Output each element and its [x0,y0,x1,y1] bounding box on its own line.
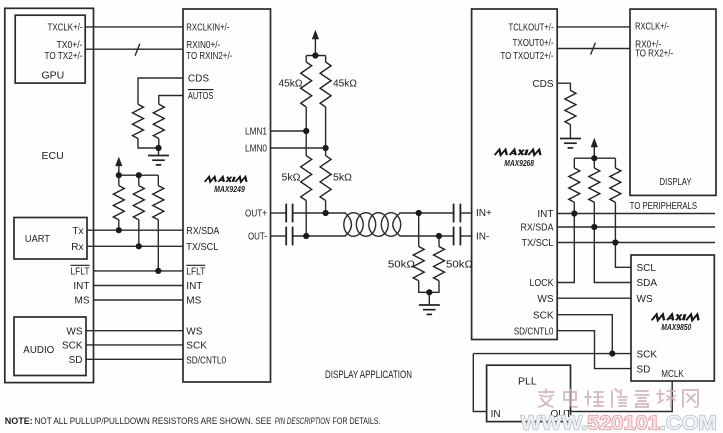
wire C3 to IN+ pin [461,212,472,214]
svg-text:INT: INT [186,281,202,292]
DISPLAY box [630,9,716,195]
ECU box [5,8,94,382]
wire OUT+ to cap C1 [271,212,287,214]
ground G2 [560,139,581,148]
resistor 5k right [320,156,331,201]
svg-text:RXIN0+/-: RXIN0+/- [186,40,220,51]
svg-text:OUT-: OUT- [248,232,267,243]
wire LMN0 [271,147,326,149]
wire pullup R4 leads [138,175,140,185]
wire SD link [557,331,631,369]
capacitor C3 [454,204,461,223]
wire LMN1 [271,130,307,132]
resistor pullup R15 [610,168,621,202]
capacitor C4 [454,227,461,246]
wire supply stub mid [314,48,316,56]
svg-text:PLL: PLL [518,376,537,388]
svg-text:SD: SD [69,355,83,366]
wire SDA link [594,227,631,283]
svg-text:WS: WS [66,326,82,337]
svg-text:TCLKOUT+/-: TCLKOUT+/- [509,23,554,34]
junction dot CDS/AUTOS ground [155,145,161,151]
wire CDS U2 [557,83,570,90]
svg-text:TO PERIPHERALS: TO PERIPHERALS [630,201,698,212]
svg-text:PIN DESCRIPTION: PIN DESCRIPTION [275,416,330,426]
wire C2 to twisted pair [293,235,346,237]
audio DAC U3 MAX9850 box [631,255,714,381]
svg-text:GPU: GPU [42,69,65,81]
resistor 45k right [320,62,331,107]
svg-text:5kΩ: 5kΩ [282,173,302,184]
UART box [14,218,87,260]
svg-text:MAX9249: MAX9249 [214,185,245,194]
resistor pullup R13 [569,168,580,202]
junction dot LMN0 [323,145,329,151]
wire SCL link [615,243,631,268]
svg-text:RX/SDA: RX/SDA [186,226,219,237]
svg-text:SCK: SCK [637,349,658,360]
resistor 50k right [434,247,445,281]
wire ground stub mid [428,292,430,305]
wire 45k left leads [305,56,307,63]
svg-text:TO TXOUT2+/-: TO TXOUT2+/- [501,51,554,62]
wire pullup R13 leads [573,158,575,168]
svg-text:5kΩ: 5kΩ [333,173,353,184]
wire SD left [86,358,183,360]
resistor pullup R14 [589,168,600,202]
svg-text:SD/CNTL0: SD/CNTL0 [186,356,226,367]
svg-text:45kΩ: 45kΩ [333,78,358,89]
svg-text:INT: INT [537,209,553,220]
wire LFLT [94,270,184,272]
junction dot 45k top [312,52,318,58]
junction dot LFLT [155,268,161,274]
U2 MAXIM logo [495,150,543,156]
svg-text:NOTE:: NOTE: [5,416,33,426]
wire supply rail right [574,157,615,159]
junction dot Rx [136,243,142,249]
resistor CDS pulldown left [133,104,144,138]
pin label U1 AUTOS overline [188,89,214,91]
wire CDS U2 resistor bottom to ground [569,125,571,139]
svg-text:LMN1: LMN1 [245,127,267,138]
svg-text:SCK: SCK [62,341,83,352]
junction dot TX/SCL [612,239,618,245]
wire CDS resistor bottom to ground node [138,139,159,149]
wire C1 to twisted pair [293,212,346,214]
junction dot OUT+ 5k [323,210,329,216]
wire WS link [557,297,631,299]
wire SCK U2 down [557,315,612,354]
svg-text:IN: IN [491,409,501,420]
svg-text:DISPLAY APPLICATION: DISPLAY APPLICATION [325,369,412,381]
wire Tx to RX/SDA [87,229,183,231]
resistor 5k left [301,156,312,201]
svg-text:Rx: Rx [71,242,83,253]
junction dot INT [571,210,577,216]
svg-text:SCL: SCL [637,263,657,274]
AUDIO box [14,317,86,376]
supply arrow left [115,157,122,176]
svg-text:AUDIO: AUDIO [23,344,54,356]
svg-text:IN-: IN- [476,232,489,243]
svg-text:NOT ALL PULLUP/PULLDOWN RESIST: NOT ALL PULLUP/PULLDOWN RESISTORS ARE SH… [35,416,272,426]
svg-text:CDS: CDS [188,74,209,85]
U3 MAXIM logo [652,314,701,320]
op U1 MAXIM logo [205,177,248,182]
wire AUTOS U1 [159,96,183,105]
junction dot 50k ground [426,289,432,295]
svg-text:SD: SD [637,364,651,375]
wire 5k left leads [305,131,307,156]
supply arrow right [591,138,598,157]
wire WS left [86,330,183,332]
wire 50k left leads [418,213,420,247]
wire Rx to TX/SCL [87,245,183,247]
wire twisted pair to cap C3 IN+ [400,212,454,214]
resistor 50k left [413,247,424,281]
svg-text:SDA: SDA [637,278,658,289]
PLL box [487,365,571,421]
wire twisted pair to cap C4 IN- [400,235,454,237]
resistor AUTOS pulldown [153,104,164,138]
wire pullup R15 leads [614,158,616,168]
svg-text:FOR DETAILS.: FOR DETAILS. [333,416,381,426]
svg-text:LMN0: LMN0 [245,144,267,155]
junction dot IN+ 50k [416,210,422,216]
svg-text:RXCLK+/-: RXCLK+/- [635,22,669,33]
svg-text:LOCK: LOCK [530,278,554,289]
resistor pullup R4 [133,186,144,220]
wire OUT- to cap C2 [271,235,287,237]
resistor pullup R3 [113,186,124,220]
twisted pair cable [344,213,401,237]
svg-text:50kΩ: 50kΩ [388,260,416,271]
svg-text:ECU: ECU [42,150,64,162]
svg-text:TXCLK+/-: TXCLK+/- [48,23,83,34]
junction dot rail left 2 [136,172,142,178]
wire pullup R3 leads [118,175,120,185]
wire supply rail left [119,174,159,176]
svg-text:MS: MS [75,296,90,307]
wire TXOUT bus U2 to DISPLAY [557,48,630,50]
svg-text:TX/SCL: TX/SCL [186,242,218,253]
wire 50k right leads [438,236,440,247]
resistor 45k left [301,62,312,107]
svg-text:45kΩ: 45kΩ [279,78,304,89]
wire 45k right leads [325,56,327,63]
svg-text:LFLT: LFLT [186,267,205,278]
deserializer U2 MAX9268 box [472,9,558,340]
svg-text:WWW.520101.COM: WWW.520101.COM [521,412,717,433]
watermark chinese characters [539,389,698,407]
svg-text:TO RX2+/-: TO RX2+/- [635,49,673,60]
wire TXCLK bus GPU to U1 [85,26,183,28]
capacitor C2 [286,227,292,246]
junction dot IN- 50k [436,233,442,239]
svg-text:LFLT: LFLT [71,267,90,278]
svg-text:50kΩ: 50kΩ [446,260,474,271]
svg-text:MS: MS [186,296,201,307]
resistor CDS pulldown U2 [565,90,576,124]
bus slash mark left [135,44,140,56]
wire CDS U1 [138,78,183,104]
junction dot rail left 1 [116,172,122,178]
svg-text:Tx: Tx [72,226,83,237]
svg-text:MCLK: MCLK [661,369,684,380]
wire pullup R5 leads [157,175,159,185]
supply arrow mid [312,30,319,49]
wire pullup R14 leads [593,158,595,168]
svg-text:SD/CNTL0: SD/CNTL0 [514,326,554,337]
svg-text:AUTOS: AUTOS [188,91,214,102]
wire MS [94,299,184,301]
svg-text:MAX9850: MAX9850 [661,323,691,332]
svg-text:TX/SCL: TX/SCL [522,238,554,249]
wire 5k right leads [325,148,327,156]
serializer U1 MAX9249 box [183,9,271,382]
pin label ECU LFLT overline [71,264,90,266]
wire INT to peripherals [557,213,715,215]
svg-text:MAX9268: MAX9268 [504,159,534,168]
junction dot OUT- 5k [303,233,309,239]
pin label U1 LFLT overline [186,264,205,266]
wire TX/SCL to peripherals [557,242,715,244]
GPU box [15,15,85,83]
svg-text:OUT+: OUT+ [245,209,267,220]
capacitor C1 [286,204,292,223]
svg-text:UART: UART [25,233,51,245]
wire RX/SDA to peripherals [557,226,715,228]
wire LOCK link [557,214,574,283]
wire SCK bus to MAX9850 [473,353,631,355]
wire AUTOS resistor bottom [158,139,160,149]
svg-text:WS: WS [186,326,202,337]
resistor pullup R5 [153,186,164,220]
wire TCLKOUT bus U2 to DISPLAY [557,26,630,28]
wire PLL OUT to MCLK [571,381,673,412]
svg-text:TO RXIN2+/-: TO RXIN2+/- [186,51,232,62]
wire TX0-TX2 bus GPU to U1 [85,48,183,50]
wire INT left [94,285,184,287]
wire SCK left [86,344,183,346]
svg-text:DISPLAY: DISPLAY [660,176,692,188]
svg-text:WS: WS [637,294,653,305]
junction dot LMN1 [303,128,309,134]
svg-text:SCK: SCK [533,310,554,321]
wire 45k top rail [306,55,325,57]
svg-text:TXOUT0+/-: TXOUT0+/- [513,38,554,49]
svg-text:RX/SDA: RX/SDA [521,223,554,234]
svg-text:IN+: IN+ [476,208,492,219]
svg-text:TX0+/-: TX0+/- [57,40,83,51]
junction dot RX/SDA [591,224,597,230]
ground G3 [419,305,440,314]
junction dot SCK [609,351,615,357]
svg-text:CDS: CDS [532,79,553,90]
wire ground stub left [158,148,160,156]
svg-text:WS: WS [537,294,553,305]
svg-text:INT: INT [73,281,89,292]
wire SCK bus to PLL IN [473,354,486,412]
junction dot rail right [591,155,597,161]
ground G1 [148,156,169,165]
junction dot Tx [116,227,122,233]
svg-text:RXCLKIN+/-: RXCLKIN+/- [186,23,229,34]
svg-text:TO TX2+/-: TO TX2+/- [45,51,83,62]
bus slash mark right [591,43,596,55]
svg-text:SCK: SCK [186,341,207,352]
wire C4 to IN- pin [461,235,472,237]
